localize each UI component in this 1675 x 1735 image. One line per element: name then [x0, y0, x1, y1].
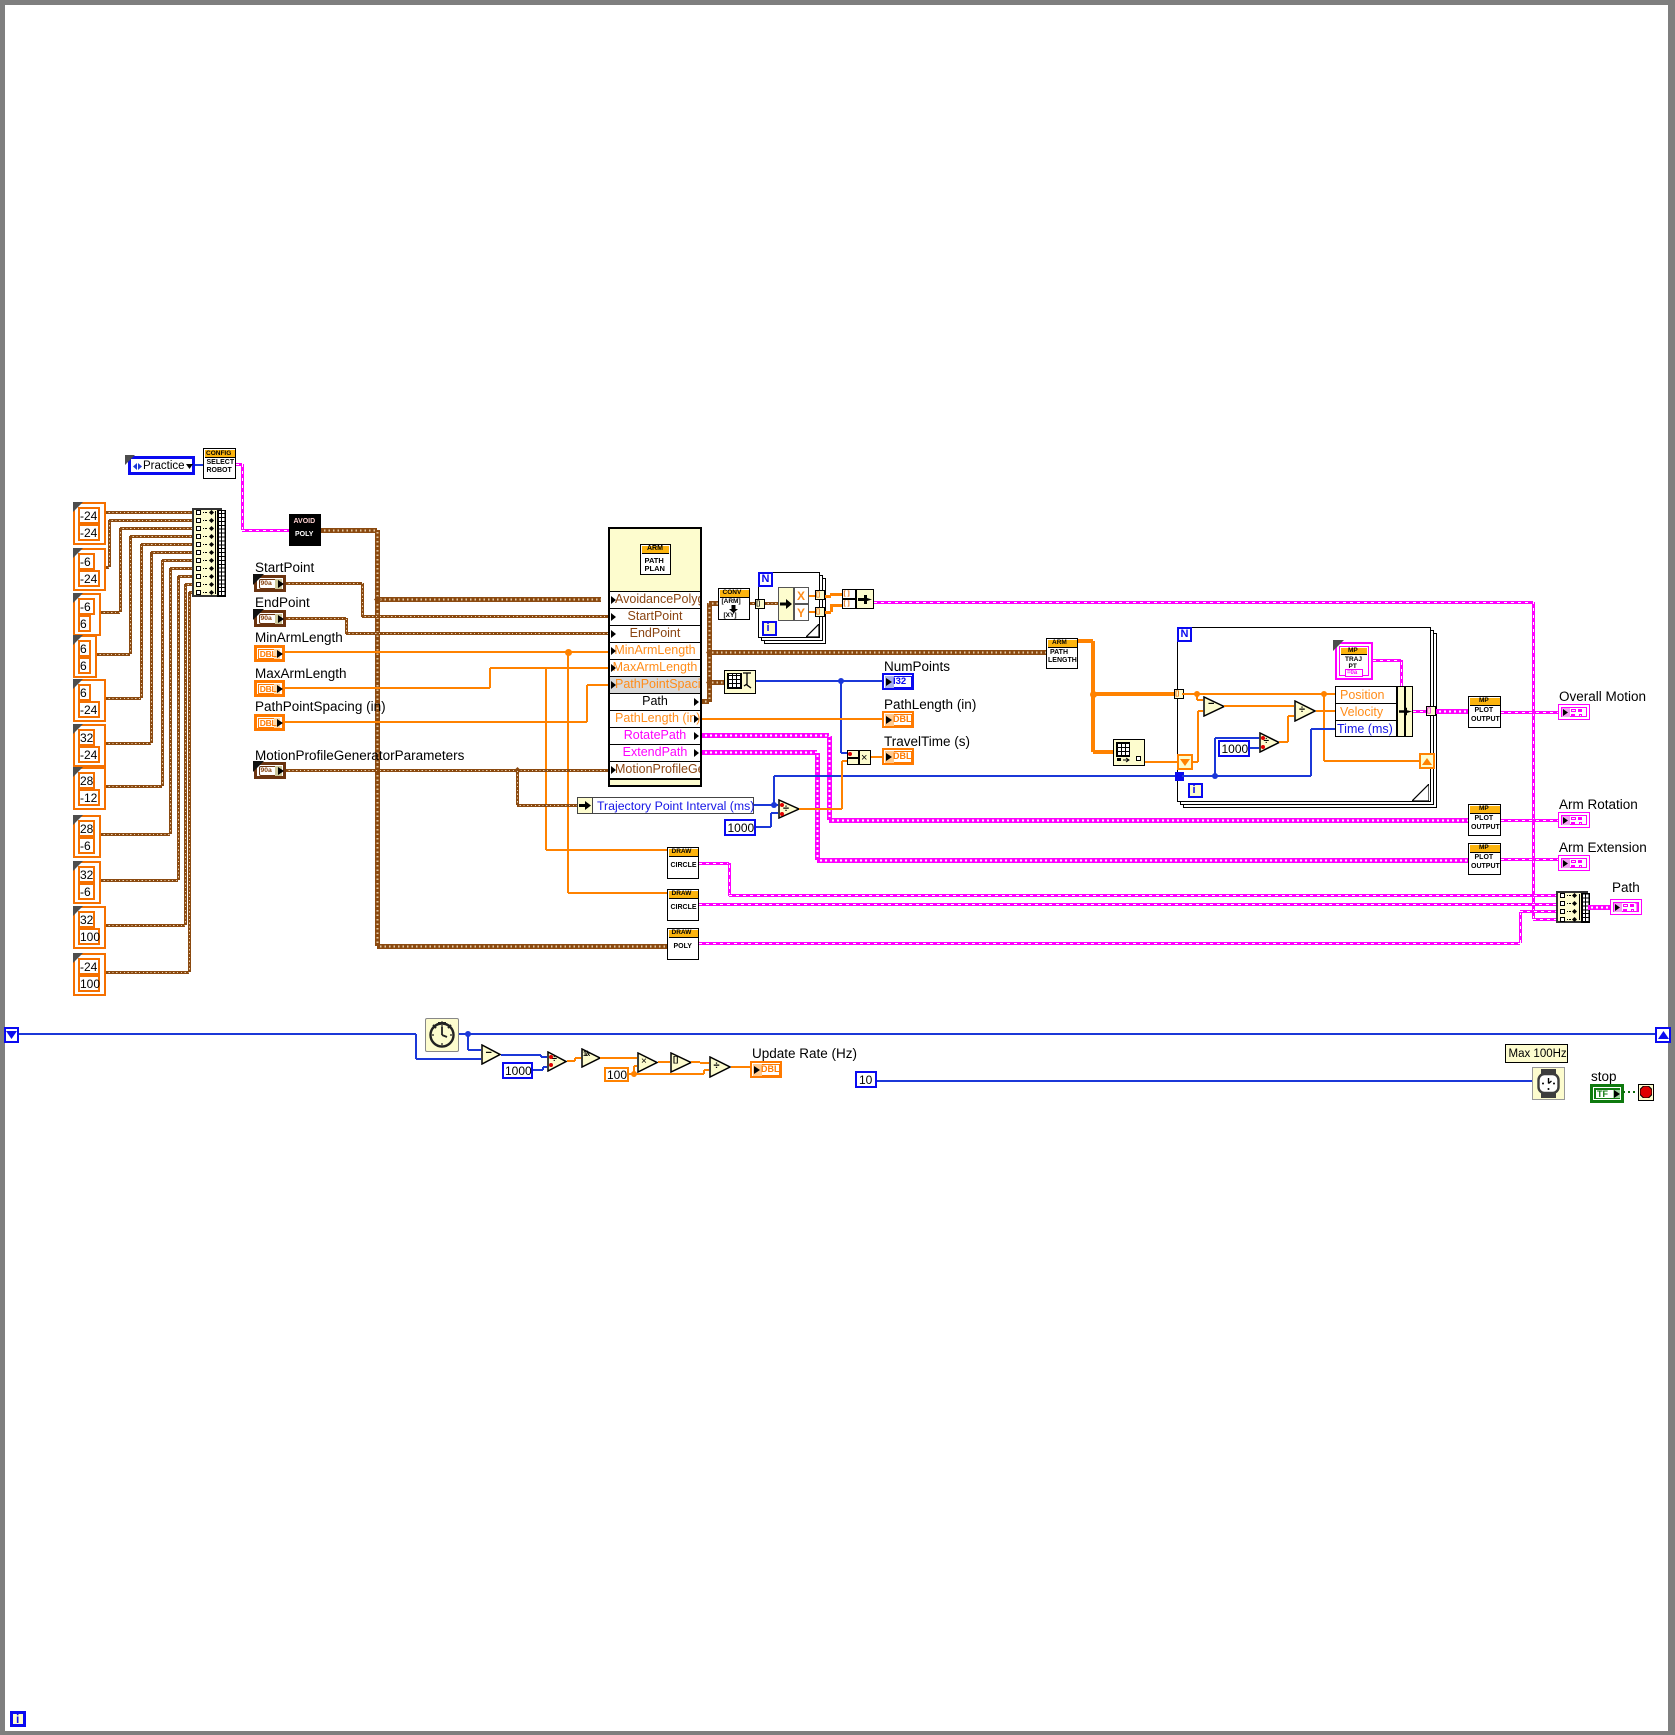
label Max 100Hz — [1505, 1044, 1568, 1063]
divide node (velocity) — [1294, 700, 1316, 722]
indicator PathLength DBL — [882, 711, 914, 728]
wire cluster 5 to build array — [106, 697, 141, 700]
wire cluster 2 to build array — [106, 566, 109, 569]
wire MaxArmLength — [285, 687, 490, 689]
VI wait ms (watch) — [1532, 1067, 1565, 1100]
wire Path output up to conv — [707, 603, 712, 702]
wire blue to small divide — [1214, 738, 1216, 776]
wire draw poly output — [699, 942, 1520, 945]
Arm Path Plan icon — [640, 544, 671, 575]
wire 1000 to divide — [533, 1069, 543, 1071]
wire array size to shift register — [1145, 761, 1177, 763]
Arm Path Plan row MaxArmLength — [610, 659, 700, 676]
control PathPointSpacing label — [255, 699, 386, 714]
numeric constant 1000 — [724, 819, 756, 836]
wire cluster 10 to build array — [106, 924, 185, 927]
wire 10 to wait — [877, 1080, 1532, 1082]
for loop i terminal — [762, 621, 777, 636]
control MotionProfileGeneratorParameters — [254, 762, 286, 779]
indicator Arm Rotation — [1558, 812, 1590, 828]
control stop (boolean) — [1590, 1084, 1624, 1103]
wire cluster 6 to build array — [106, 742, 151, 745]
indicator TravelTime label — [884, 734, 970, 749]
output tunnels — [815, 590, 825, 600]
wire bundle to output tunnel — [1413, 710, 1426, 713]
VI Arm Path Plan (expandable node) — [608, 527, 702, 787]
build array node Path (4 inputs) — [1556, 891, 1588, 923]
VI MP Plot Output 3 — [1468, 843, 1501, 875]
numeric constant 100 — [604, 1067, 629, 1082]
wire cluster 3 to build array — [101, 611, 120, 614]
VI Conv ARM to XY — [718, 588, 750, 620]
position array input tunnel — [1174, 689, 1184, 699]
round to nearest node — [670, 1052, 692, 1073]
control MotionProfileGeneratorParameters label — [255, 748, 464, 763]
VI interpolate path — [724, 670, 756, 694]
loop condition terminal (stop sign) — [1638, 1084, 1654, 1101]
unbundle point to X Y — [778, 587, 794, 621]
wire round to divide — [691, 1061, 700, 1063]
wire numpoints (blue) — [756, 680, 882, 682]
inner for loop N terminal — [1177, 627, 1192, 642]
cluster constant (32,-6) — [73, 861, 101, 904]
VI constant MP Traj Pt (class) — [1335, 642, 1373, 680]
wire draw circle 1 output — [699, 862, 729, 865]
control EndPoint — [254, 610, 286, 627]
cluster constant (-6,6) — [73, 593, 101, 636]
wire cluster 4 to build array — [97, 653, 130, 656]
indicator PathLength label — [884, 697, 976, 712]
for loop N terminal — [758, 572, 773, 587]
bundle X Y arrays to cluster — [842, 589, 856, 599]
VI MP Plot Output 1 — [1468, 696, 1501, 728]
wire cluster 8 to build array — [101, 833, 170, 836]
divide node (interval/1000) — [778, 799, 800, 819]
wire divide to update rate — [731, 1066, 752, 1068]
inner for loop i terminal — [1188, 783, 1203, 798]
output tunnel (class array) — [1426, 706, 1436, 716]
reciprocal node 1/x — [581, 1048, 601, 1068]
interval input tunnel (blue) — [1175, 772, 1184, 781]
control MinArmLength label — [255, 630, 343, 645]
wire subtract to divide — [1224, 705, 1294, 707]
for loop (points to XY) — [764, 578, 826, 644]
control StartPoint — [254, 575, 286, 592]
wire cluster 1 to build array — [106, 511, 192, 514]
bundle by name (Position/Velocity/Time) — [1335, 686, 1397, 737]
wire cluster 7 to build array — [106, 785, 162, 788]
divide node (to seconds) — [547, 1051, 567, 1072]
subtract node — [1203, 696, 1225, 717]
VI tick count clock — [425, 1018, 459, 1052]
wire conv to for loop — [750, 602, 758, 605]
wire 1000 to divide — [756, 826, 771, 828]
control StartPoint label — [255, 560, 314, 575]
compound multiply node — [847, 750, 859, 765]
indicator TravelTime DBL — [882, 748, 914, 765]
cluster constant (28,-6) — [73, 815, 101, 858]
wire tunnel to plot output 1 — [1436, 709, 1468, 714]
indicator Overall Motion — [1558, 704, 1590, 720]
indicator NumPoints label — [884, 659, 950, 674]
wire enum to config — [195, 464, 203, 466]
wire multiply to round — [658, 1061, 670, 1063]
VI Draw Circle 2 — [667, 889, 699, 921]
wire MotionProfileGeneratorParameters — [286, 769, 608, 772]
right shift register — [1419, 753, 1435, 769]
while loop right shift register — [1655, 1027, 1671, 1043]
wires tunnels to bundle — [825, 595, 831, 598]
Arm Path Plan row MinArmLength — [610, 642, 700, 659]
cluster constant (6,-24) — [73, 679, 106, 722]
Arm Path Plan row Path — [610, 693, 700, 710]
cluster constant (-24,100) — [73, 953, 106, 996]
indicator NumPoints I32 — [882, 673, 914, 690]
wire traj pt class to bundle — [1373, 659, 1401, 662]
wire cluster 9 to build array — [101, 879, 178, 882]
cluster constant (-6,-24) — [73, 548, 106, 591]
wire left shift register to subtract — [19, 1033, 416, 1035]
multiply node — [637, 1052, 658, 1073]
divide node (update rate) — [709, 1056, 731, 1078]
while loop left shift register — [4, 1027, 19, 1043]
small divide node — [1259, 732, 1280, 753]
VI MP Plot Output 2 — [1468, 804, 1501, 836]
control MinArmLength — [254, 645, 285, 662]
wire avoid poly to path plan + draw poly — [321, 528, 377, 533]
wire config to avoid poly (class wire) — [236, 463, 242, 466]
VI array info — [1113, 739, 1145, 766]
wire stop to condition — [1623, 1091, 1638, 1093]
control PathPointSpacing — [254, 714, 285, 731]
subtract node (ms diff) — [481, 1044, 501, 1065]
indicator Arm Extension label — [1559, 840, 1647, 855]
Arm Path Plan row PathPointSpacin — [610, 676, 700, 693]
wire subtract to divide — [0, 0, 1, 1]
input tunnel — [755, 599, 765, 609]
VI Draw Poly — [667, 928, 699, 960]
indicator Path — [1610, 899, 1642, 915]
wire reciprocal to multiply — [600, 1057, 637, 1059]
Arm Path Plan row StartPoint — [610, 608, 700, 625]
VI Arm Path Length — [1046, 638, 1078, 669]
indicator Path label — [1612, 880, 1640, 895]
build array node (11 inputs) — [192, 508, 222, 597]
cluster constant (32,100) — [73, 906, 106, 949]
Arm Path Plan row AvoidancePolyg — [610, 591, 700, 608]
indicator Arm Extension — [1558, 855, 1590, 871]
Arm Path Plan row RotatePath — [610, 727, 700, 744]
wire divide to compound — [799, 808, 842, 810]
wire XY cluster to Path build array (long pink) — [874, 601, 1533, 604]
numeric constant 1000 (bottom) — [502, 1062, 533, 1079]
Arm Path Plan row MotionProfileGe — [610, 761, 700, 778]
wire draw circle 2 output — [699, 903, 1556, 906]
inner for loop frame — [1183, 633, 1437, 808]
wire arm path length output — [1078, 639, 1093, 643]
control MaxArmLength — [254, 680, 285, 697]
wire divide to velocity — [1316, 710, 1335, 712]
indicator Update Rate label — [752, 1046, 857, 1061]
control EndPoint label — [255, 595, 310, 610]
wire PathPointSpacing — [285, 721, 587, 723]
VI Draw Circle 1 — [667, 847, 699, 879]
while loop iteration terminal i — [10, 1711, 26, 1727]
Arm Path Plan row PathLength (in) — [610, 710, 700, 727]
wire plot1 to overall motion — [1501, 711, 1559, 714]
wire PathLength — [702, 718, 882, 720]
wire 100 to multiply and divide — [629, 1073, 634, 1075]
wire plot2 to arm rotation — [1501, 819, 1559, 822]
wire cluster 11 to build array — [106, 971, 189, 974]
cluster constant (32,-24) — [73, 724, 106, 767]
left shift register — [1177, 754, 1193, 770]
indicator Overall Motion label — [1559, 689, 1646, 704]
VI Config Select Robot — [203, 448, 236, 479]
indicator Arm Rotation label — [1559, 797, 1638, 812]
Arm Path Plan row EndPoint — [610, 625, 700, 642]
wire path to arm path length — [709, 650, 1046, 655]
VI Avoid Poly — [289, 514, 321, 546]
unbundle Trajectory Point Interval — [577, 797, 593, 814]
control stop label — [1591, 1069, 1617, 1084]
wire interval output — [754, 804, 778, 806]
wire clock output — [459, 1033, 1655, 1035]
wire 1000 to small divide — [1250, 747, 1259, 749]
wire ExtendPath to plot output 3 — [702, 750, 817, 755]
wire path to interpolate icon — [709, 680, 724, 685]
numeric constant 10 — [855, 1071, 877, 1088]
wire path node to indicator — [1588, 905, 1610, 910]
inner loop wiring — [1182, 693, 1197, 695]
numeric constant 1000 (inner) — [1218, 740, 1250, 757]
Arm Path Plan row ExtendPath — [610, 744, 700, 761]
control MaxArmLength label — [255, 666, 347, 681]
wire EndPoint — [286, 617, 346, 620]
cluster constant (-24,-24) — [73, 502, 106, 545]
cluster constant (6,6) — [73, 635, 97, 678]
wire plot3 to arm extension — [1501, 858, 1559, 861]
cluster constant (28,-12) — [73, 767, 106, 810]
wire small divide to divide — [1279, 741, 1288, 743]
wire MinArmLength — [285, 651, 608, 653]
while loop border — [0, 0, 1675, 5]
wire divide to reciprocal — [567, 1060, 575, 1062]
wire StartPoint — [286, 582, 362, 585]
wire compound to travel time — [871, 756, 882, 758]
wire RotatePath to plot output 2 — [702, 733, 829, 738]
indicator Update Rate DBL — [750, 1061, 782, 1078]
enum constant Practice — [128, 456, 195, 475]
